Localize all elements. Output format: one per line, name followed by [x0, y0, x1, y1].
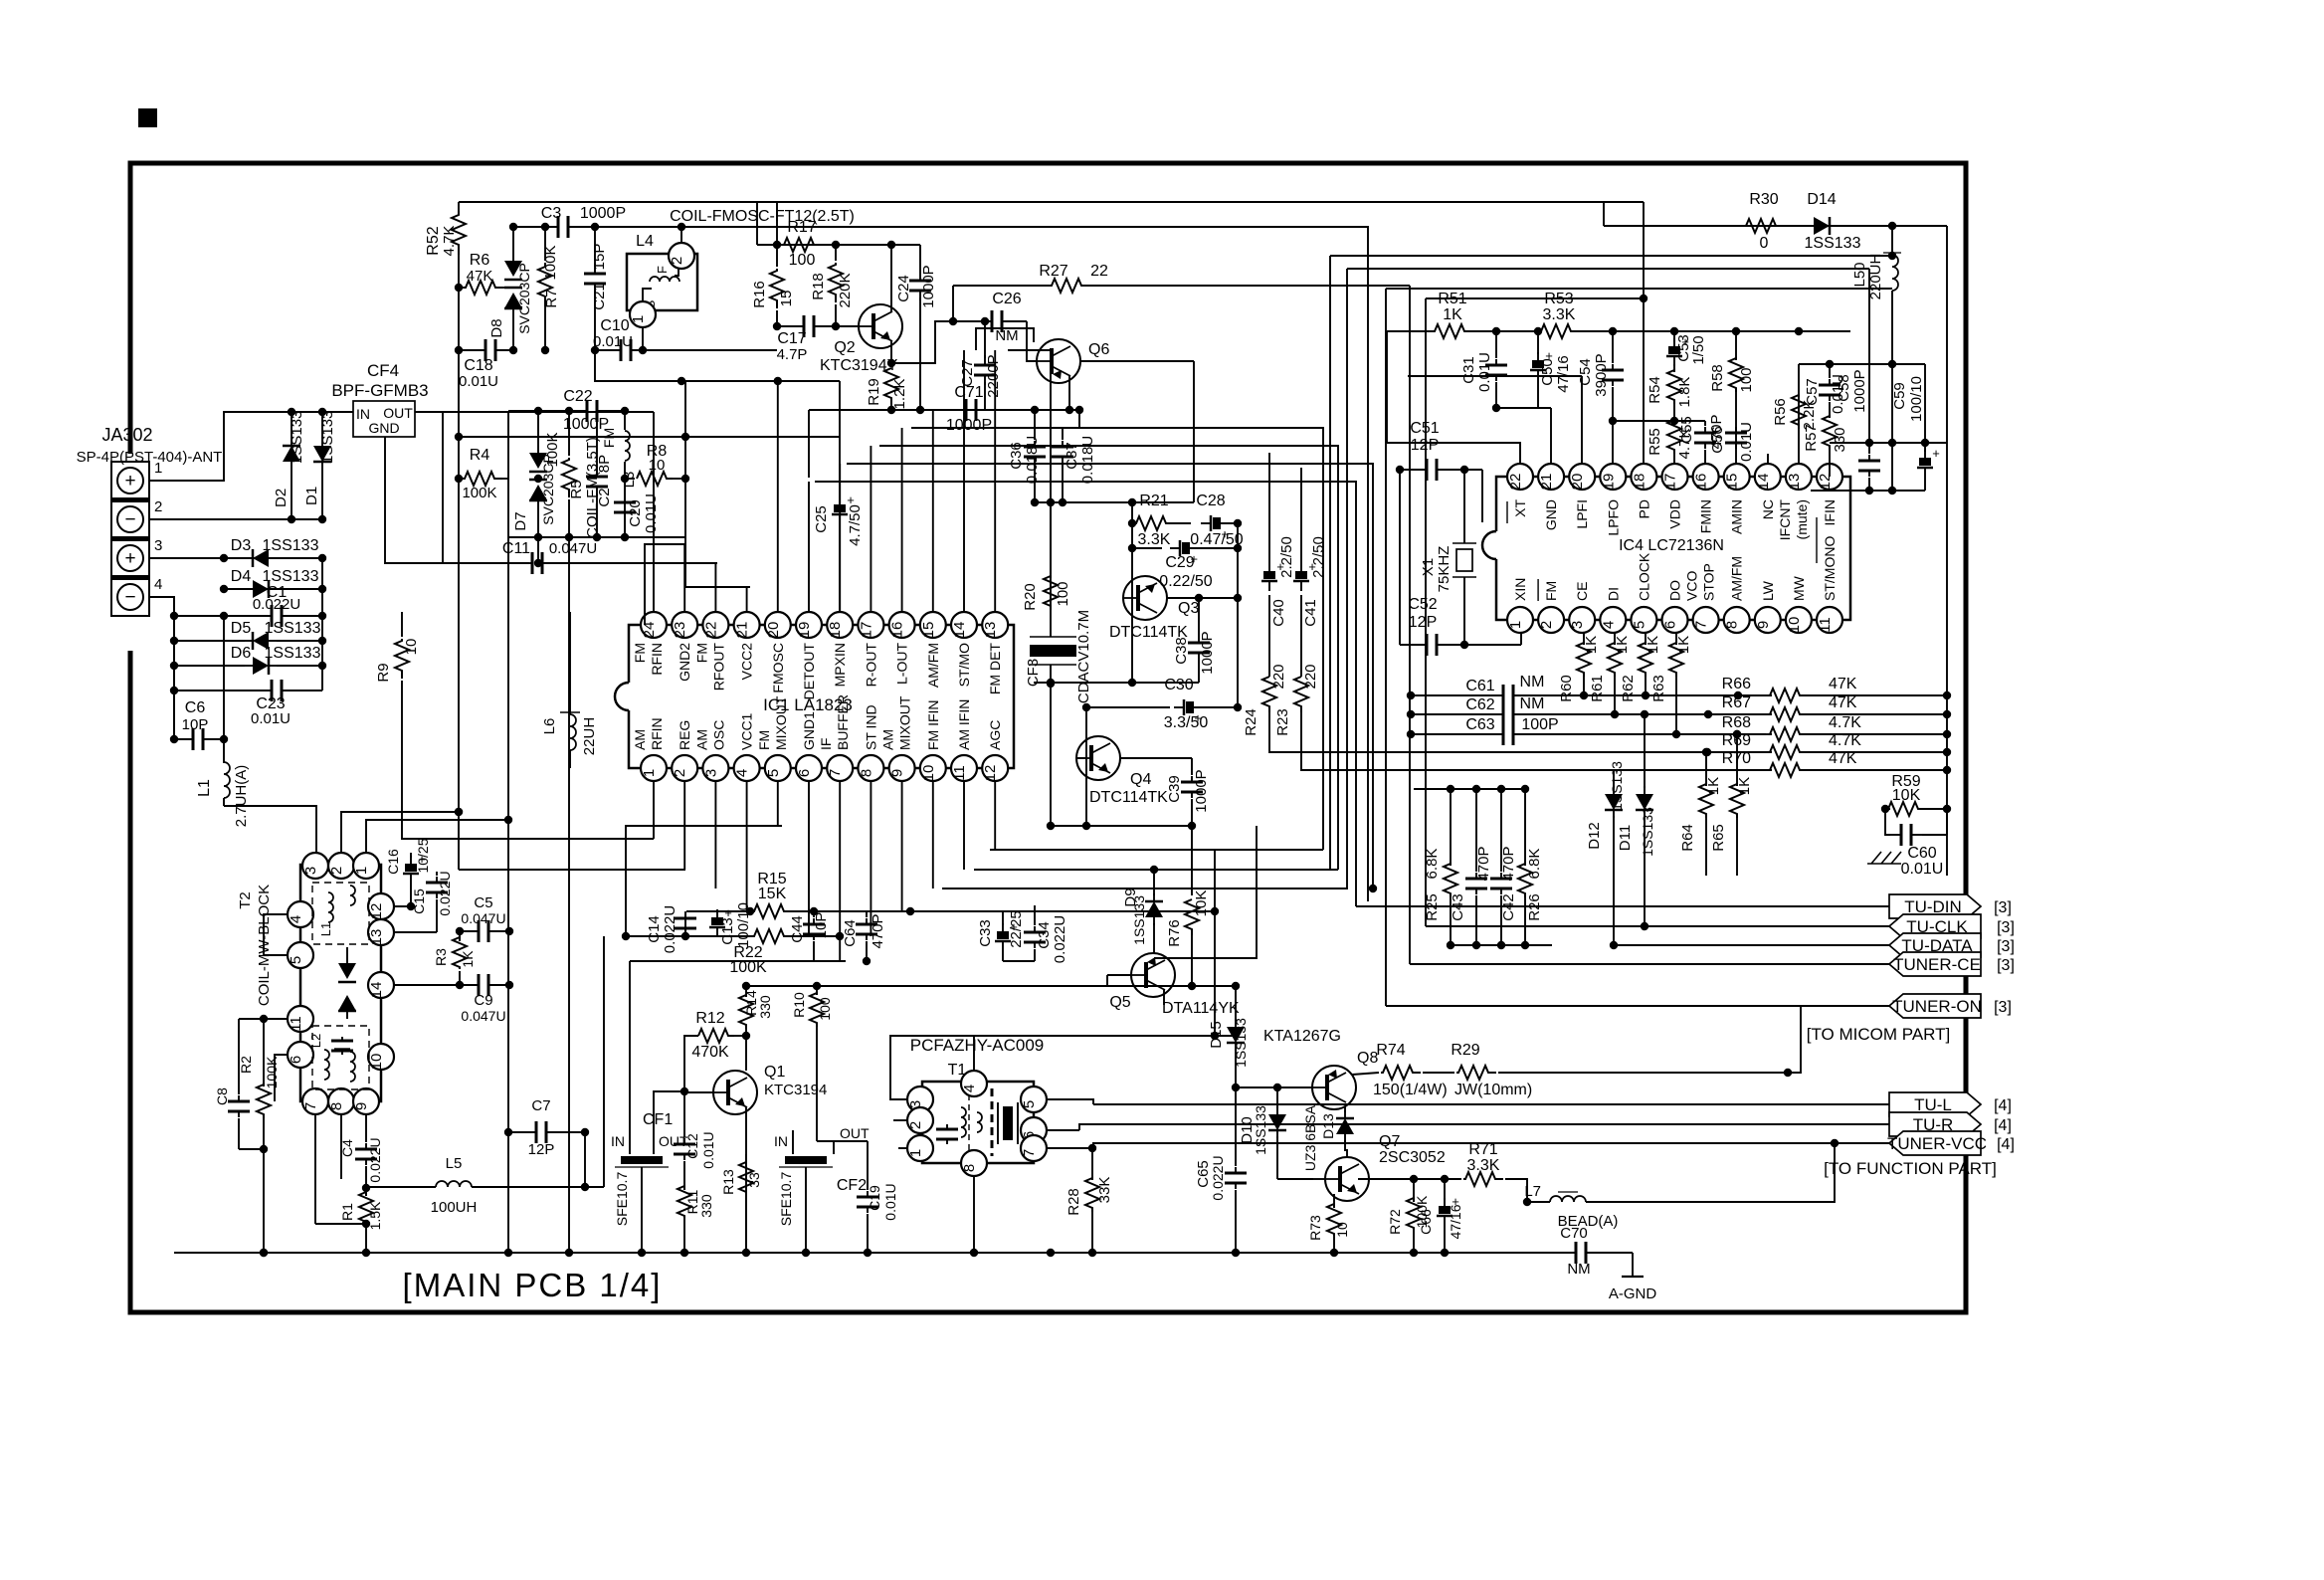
- svg-text:2: 2: [669, 257, 685, 265]
- svg-text:STOP: STOP: [1701, 563, 1717, 601]
- svg-text:330: 330: [1832, 427, 1848, 452]
- svg-text:0.01U: 0.01U: [459, 373, 498, 390]
- junction: [621, 475, 629, 483]
- wire Q2 emitter to C26: [891, 321, 991, 363]
- wire T1 pin6 out: [1047, 1129, 1079, 1131]
- svg-text:1: 1: [641, 769, 658, 777]
- svg-text:L6: L6: [541, 718, 558, 735]
- IC1 pin 16: [889, 612, 915, 638]
- row y=830: [1051, 825, 1192, 827]
- net arrow TU-R [4]: [1889, 1112, 2012, 1136]
- svg-text:R21: R21: [1139, 493, 1168, 509]
- wire pin18 PD long: [1643, 202, 1645, 464]
- svg-text:1: 1: [154, 460, 162, 477]
- junction: [565, 1249, 573, 1257]
- svg-text:C59: C59: [1891, 382, 1908, 410]
- junction: [1943, 748, 1951, 756]
- black index square top-left: [138, 108, 157, 127]
- wire staircase pin17: [879, 446, 1338, 870]
- wire Q2 collector: [890, 245, 892, 311]
- svg-text:0.022U: 0.022U: [367, 1137, 383, 1182]
- svg-text:33K: 33K: [1096, 1177, 1113, 1204]
- svg-text:100: 100: [789, 252, 816, 269]
- svg-text:D4: D4: [231, 568, 252, 585]
- junction: [1865, 487, 1873, 494]
- svg-text:12: 12: [368, 903, 385, 920]
- capacitor C44 10P: [789, 911, 830, 961]
- capacitor C27 2200P: [959, 321, 1002, 410]
- svg-text:2: 2: [1538, 621, 1555, 629]
- svg-text:D3: D3: [231, 537, 252, 554]
- svg-text:VCC1: VCC1: [739, 712, 755, 750]
- transistor Q1 KTC3194: [713, 1064, 827, 1114]
- transistor Q7 2SC3052: [1313, 1133, 1446, 1201]
- wire Q6 collector down: [1068, 376, 1070, 410]
- svg-text:UZ3.6BSA: UZ3.6BSA: [1302, 1104, 1318, 1171]
- wire pin2 route: [455, 808, 685, 870]
- capacitor C59 100/10: [1891, 376, 1940, 491]
- svg-text:R4: R4: [470, 447, 490, 464]
- wire row to TU-R: [1079, 1124, 1889, 1130]
- wire C37 top: [1063, 406, 1083, 428]
- junction: [1188, 982, 1196, 990]
- junction: [1732, 327, 1740, 335]
- svg-text:D12: D12: [1586, 822, 1603, 850]
- IC1 pin 13 lead: [994, 350, 996, 612]
- capacitor C55 470P: [1678, 414, 1725, 464]
- IC4 pin 19: [1600, 464, 1626, 490]
- T2 pin 13: [368, 919, 394, 945]
- junction: [541, 346, 549, 354]
- svg-text:1000P: 1000P: [1193, 769, 1210, 812]
- wire T1 pin3: [890, 1036, 974, 1099]
- svg-text:0.018U: 0.018U: [1024, 436, 1041, 484]
- T1 pin 3: [907, 1086, 933, 1112]
- junction: [541, 223, 549, 231]
- svg-text:R62: R62: [1620, 675, 1637, 702]
- wire pin12 C16: [394, 905, 411, 907]
- junction: [1670, 327, 1678, 335]
- svg-text:D2: D2: [273, 489, 290, 507]
- svg-text:NM: NM: [1520, 695, 1545, 712]
- svg-text:C22: C22: [563, 388, 592, 405]
- svg-text:IN: IN: [774, 1133, 788, 1149]
- wire L1 to T2 pin3: [224, 806, 316, 853]
- svg-text:2.7UH(A): 2.7UH(A): [233, 765, 250, 828]
- wire CF2 out: [817, 1140, 868, 1142]
- svg-text:[3]: [3]: [1997, 957, 2015, 974]
- svg-text:470P: 470P: [1500, 846, 1517, 881]
- svg-text:R52: R52: [425, 226, 442, 255]
- junction: [504, 1249, 512, 1257]
- crystal X1 75KHZ: [1420, 470, 1476, 645]
- svg-text:4.7/50: 4.7/50: [847, 504, 864, 546]
- varicap D8 SVC203CP: [488, 227, 532, 350]
- svg-text:13: 13: [1786, 474, 1803, 491]
- svg-text:D6: D6: [231, 645, 252, 662]
- svg-text:L1: L1: [318, 922, 333, 936]
- svg-text:RFIN: RFIN: [649, 643, 665, 676]
- wire staircase pin16: [911, 428, 1323, 850]
- svg-text:FM: FM: [693, 643, 709, 663]
- wire nest y=228: [681, 227, 1368, 901]
- junction: [455, 433, 463, 441]
- svg-text:17: 17: [1662, 474, 1679, 491]
- capacitor C64 470P: [842, 911, 886, 961]
- T2 pin 6: [288, 1042, 313, 1068]
- wire nest y=270: [942, 269, 1347, 889]
- junction: [1943, 805, 1951, 813]
- svg-text:22: 22: [1507, 474, 1524, 491]
- svg-text:CLOCK: CLOCK: [1636, 552, 1651, 601]
- svg-text:15: 15: [778, 291, 795, 307]
- resistor R28 33K: [1065, 1148, 1113, 1253]
- border frame of schematic sheet: [130, 163, 1966, 1312]
- svg-text:0.01U: 0.01U: [1901, 861, 1944, 878]
- junction: [1410, 1175, 1449, 1183]
- IC1 pin 6: [796, 755, 822, 781]
- wire pin3 row: [149, 557, 322, 559]
- IC1 pin 24: [641, 612, 667, 638]
- junction: [288, 408, 295, 416]
- wire T2 pin2 up: [341, 808, 463, 853]
- wire nest y=270 right: [1347, 269, 1869, 443]
- T1 pin 5: [1021, 1086, 1047, 1112]
- svg-text:4.7K: 4.7K: [1829, 714, 1861, 731]
- wire staircase pin18: [847, 464, 1377, 892]
- resistor R71 3.3K: [1445, 1141, 1527, 1202]
- svg-text:3900P: 3900P: [1593, 353, 1610, 396]
- T2 varicap diodes: [338, 947, 356, 1019]
- diode D10 1SS133: [1239, 1087, 1286, 1179]
- IC1 pin 9: [889, 755, 915, 781]
- capacitor C54 3900P: [1577, 331, 1624, 464]
- svg-text:2: 2: [154, 498, 162, 515]
- svg-text:1SS133: 1SS133: [1131, 895, 1147, 945]
- junction: [170, 735, 178, 743]
- bottom row of FM cluster: [508, 536, 685, 538]
- svg-text:22: 22: [1090, 263, 1108, 280]
- svg-text:ST/MO: ST/MO: [956, 643, 972, 687]
- svg-text:21: 21: [1538, 474, 1555, 491]
- junction: [288, 515, 295, 523]
- svg-text:2: 2: [672, 769, 688, 777]
- svg-text:10P: 10P: [813, 912, 830, 939]
- junction: [1881, 805, 1889, 813]
- svg-text:[3]: [3]: [1994, 999, 2012, 1016]
- svg-text:100/10: 100/10: [735, 902, 752, 948]
- junction: [1082, 703, 1090, 711]
- svg-text:8: 8: [328, 1102, 345, 1110]
- resistor R73 10: [1307, 1204, 1350, 1253]
- svg-text:R55: R55: [1646, 428, 1663, 456]
- svg-text:L7: L7: [1524, 1183, 1541, 1200]
- junction: [318, 662, 326, 670]
- diode D2 1SS133: [273, 411, 305, 519]
- junction: [505, 981, 513, 989]
- svg-text:R-OUT: R-OUT: [863, 643, 878, 688]
- svg-text:470P: 470P: [1475, 846, 1492, 881]
- svg-text:7: 7: [827, 769, 844, 777]
- svg-text:C8: C8: [214, 1087, 230, 1105]
- T2 pin 8: [328, 1088, 354, 1114]
- row R51 R53: [1387, 291, 1850, 338]
- net arrow TUNER-CE [3]: [1889, 952, 2015, 976]
- svg-text:3: 3: [1569, 621, 1586, 629]
- wire row to TU-L: [1093, 1103, 1889, 1105]
- wire pin15 row: [943, 409, 1079, 411]
- resistor R58 100: [1709, 331, 1755, 464]
- junction: [916, 406, 924, 414]
- vertical x=607: [603, 936, 605, 1187]
- junction: [1188, 822, 1196, 830]
- wire Q7 collector row: [1358, 1178, 1445, 1180]
- junction: [565, 407, 573, 415]
- junction: [1943, 730, 1951, 738]
- resistor R30 0: [1744, 191, 1784, 252]
- svg-text:220: 220: [1270, 664, 1287, 689]
- svg-text:15K: 15K: [758, 886, 787, 902]
- svg-text:R60: R60: [1558, 675, 1575, 702]
- junction: [220, 612, 228, 620]
- wire pin21 row: [685, 537, 750, 587]
- capacitors C40 C41 2.2/50: [1261, 453, 1327, 627]
- svg-text:100K: 100K: [462, 485, 496, 501]
- svg-text:[TO MICOM PART]: [TO MICOM PART]: [1807, 1025, 1951, 1044]
- svg-text:0.047U: 0.047U: [549, 540, 597, 557]
- svg-text:D11: D11: [1617, 825, 1634, 851]
- svg-text:8: 8: [1724, 621, 1741, 629]
- row R22 100K: [626, 929, 840, 976]
- junction: [455, 346, 463, 354]
- junction: [1128, 544, 1136, 552]
- svg-text:R29: R29: [1451, 1042, 1479, 1059]
- svg-text:0.047U: 0.047U: [461, 1008, 505, 1024]
- filter CF4 BPF-GFMB3: [331, 361, 428, 437]
- wire D4 row: [224, 588, 322, 590]
- IC1 pin 8: [858, 755, 883, 781]
- wire row to TUNER-VCC: [1092, 1139, 1889, 1147]
- wire pin13 IFCNT: [1798, 364, 1800, 464]
- junction: [678, 377, 685, 385]
- svg-text:47K: 47K: [1829, 694, 1857, 711]
- svg-text:47/16: 47/16: [1448, 1204, 1463, 1239]
- resistor R13 33: [720, 1154, 762, 1253]
- R25 C43 C42 R26 group: [1414, 785, 1552, 949]
- svg-text:C43: C43: [1450, 893, 1466, 921]
- svg-text:8: 8: [858, 769, 874, 777]
- IC1 pin 10: [920, 755, 946, 781]
- svg-text:0.022U: 0.022U: [437, 871, 453, 915]
- T1 pin 8: [961, 1150, 987, 1176]
- svg-text:IFCNT: IFCNT: [1777, 499, 1793, 541]
- wire Q6 output right: [1080, 361, 1194, 502]
- svg-text:7: 7: [1693, 621, 1710, 629]
- IC1 pin 22: [702, 612, 728, 638]
- wire XT pin22: [1387, 443, 1520, 464]
- svg-text:C38: C38: [1173, 637, 1190, 665]
- svg-text:RFOUT: RFOUT: [710, 643, 726, 691]
- svg-text:[4]: [4]: [1997, 1136, 2015, 1153]
- svg-text:SFE10.7: SFE10.7: [778, 1172, 794, 1227]
- svg-text:C31: C31: [1460, 356, 1477, 384]
- svg-text:220K: 220K: [837, 273, 854, 307]
- svg-text:[3]: [3]: [1997, 919, 2015, 936]
- T1 pin 2: [907, 1107, 933, 1133]
- resistor R9 10: [375, 612, 420, 806]
- svg-text:C30: C30: [1164, 677, 1193, 693]
- IC4 pin 13: [1786, 464, 1812, 490]
- svg-text:C60: C60: [1907, 845, 1936, 862]
- svg-text:IC4 LC72136N: IC4 LC72136N: [1619, 537, 1724, 554]
- svg-text:Q5: Q5: [1109, 994, 1130, 1011]
- transistor Q6: [1037, 339, 1109, 383]
- svg-text:BUFFER: BUFFER: [835, 694, 851, 750]
- svg-text:C7: C7: [531, 1097, 550, 1114]
- capacitor C20 0.01U: [614, 479, 660, 537]
- capacitor C60 0.01U: [1885, 809, 1947, 878]
- svg-text:R73: R73: [1307, 1215, 1323, 1241]
- svg-text:14: 14: [951, 622, 968, 639]
- wire L4 pin2 up: [680, 227, 682, 243]
- IC4 pin 7: [1693, 607, 1719, 633]
- svg-text:R1: R1: [339, 1203, 355, 1221]
- junction: [1088, 1249, 1096, 1257]
- svg-text:TUNER-ON: TUNER-ON: [1892, 997, 1982, 1016]
- svg-text:10: 10: [368, 1054, 385, 1071]
- svg-text:1K: 1K: [1705, 777, 1722, 795]
- wire C33 C34 rows: [1003, 905, 1035, 961]
- net arrow TU-DIN [3]: [1889, 894, 2012, 918]
- svg-text:MIXOUT: MIXOUT: [773, 695, 789, 750]
- capacitor C15 0.022U: [411, 871, 453, 932]
- junction: [1232, 1249, 1240, 1257]
- transformer T2 COIL-MW-BLOCK: [237, 865, 381, 1101]
- capacitor C53 1/50: [1666, 331, 1707, 366]
- junction: [455, 284, 463, 292]
- capacitor C28 0.47/50: [1190, 493, 1243, 548]
- junction: [832, 322, 840, 330]
- svg-text:COIL-FM(3.5T): COIL-FM(3.5T): [584, 437, 601, 538]
- vertical x=511 long: [507, 537, 509, 1253]
- junction: [1704, 691, 1742, 738]
- T2 pin 3: [302, 853, 328, 879]
- svg-text:GND2: GND2: [677, 643, 692, 682]
- transistor Q8 KTA1267G: [1263, 1028, 1378, 1109]
- junction: [1943, 766, 1951, 774]
- wire pin7 row: [315, 1223, 366, 1225]
- svg-text:10: 10: [1786, 617, 1803, 634]
- svg-text:R65: R65: [1710, 824, 1727, 852]
- wire nest y=285: [1385, 289, 1387, 1006]
- svg-text:19: 19: [796, 622, 813, 639]
- svg-text:5: 5: [1631, 621, 1647, 629]
- right bus x=1957: [1946, 226, 1948, 876]
- svg-text:1000P: 1000P: [946, 417, 992, 434]
- junction: [746, 907, 754, 915]
- vertical bus x=461: [458, 288, 460, 870]
- junction: [1523, 1198, 1531, 1206]
- svg-text:10K: 10K: [1892, 787, 1921, 804]
- svg-text:C70: C70: [1560, 1225, 1588, 1242]
- svg-text:14: 14: [368, 982, 385, 999]
- junction: [318, 637, 326, 645]
- resistor R18 220K: [810, 245, 854, 326]
- resistor R64 1K: [1679, 752, 1722, 876]
- svg-text:Q1: Q1: [764, 1064, 785, 1081]
- svg-text:3: 3: [154, 537, 162, 554]
- wire nest y=290 right: [1386, 289, 1929, 447]
- resistor R56 2.2K: [1772, 395, 1818, 430]
- diode D4 1SS133: [231, 568, 319, 598]
- svg-text:3: 3: [302, 867, 319, 875]
- svg-text:10: 10: [403, 639, 420, 656]
- resistor R10 100: [791, 986, 833, 1141]
- IC4 pin 22: [1507, 464, 1533, 490]
- svg-text:Q2: Q2: [834, 339, 855, 356]
- junction: [680, 1087, 688, 1095]
- wire T1 pin5 out: [1047, 1099, 1093, 1104]
- diode D14 1SS133: [1805, 191, 1861, 252]
- svg-text:0.022U: 0.022U: [662, 905, 678, 953]
- svg-text:C63: C63: [1465, 716, 1494, 733]
- junction: [1088, 1144, 1096, 1152]
- junction: [1888, 439, 1896, 447]
- junction: [170, 637, 178, 645]
- svg-text:C64: C64: [842, 919, 859, 947]
- wire T2 pin7: [314, 1114, 316, 1224]
- wire D14 row: [1604, 225, 1892, 227]
- junction: [455, 475, 463, 483]
- svg-text:R6: R6: [470, 252, 490, 269]
- svg-text:11: 11: [1817, 617, 1834, 633]
- inductor L6 22UH: [541, 612, 598, 768]
- wire pin20 LPFI: [1581, 376, 1583, 464]
- IC1 pin 9 lead bottom: [901, 781, 903, 911]
- svg-text:AM: AM: [880, 729, 896, 750]
- wire row to TU-DIN: [1356, 905, 1889, 907]
- connector JA302 labels: [77, 425, 223, 466]
- svg-text:1K: 1K: [460, 950, 476, 968]
- svg-text:−: −: [124, 509, 135, 530]
- wire Q7 base: [1277, 1178, 1313, 1180]
- IC1 pin 23 lead: [683, 544, 685, 612]
- svg-text:ST IND: ST IND: [863, 704, 878, 750]
- svg-text:IF: IF: [818, 738, 834, 750]
- svg-text:NC: NC: [1760, 499, 1776, 519]
- svg-text:R19: R19: [866, 378, 882, 406]
- capacitor C37 0.018U: [1052, 428, 1096, 502]
- junction: [1826, 360, 1834, 368]
- resistor R66 47K: [1722, 676, 1947, 702]
- svg-text:D8: D8: [488, 318, 505, 337]
- svg-text:L-OUT: L-OUT: [894, 643, 910, 685]
- svg-text:2: 2: [907, 1121, 924, 1129]
- svg-text:9: 9: [353, 1102, 370, 1110]
- svg-text:22/25: 22/25: [1008, 910, 1025, 948]
- svg-text:24: 24: [641, 622, 658, 639]
- wire pin24 left: [443, 411, 654, 413]
- junction: [318, 408, 326, 416]
- svg-text:1000P: 1000P: [920, 265, 937, 307]
- capacitor C66 47/16: [1418, 1179, 1463, 1253]
- capacitor C19 0.01U: [857, 1141, 898, 1253]
- resistor R67 47K: [1708, 694, 1947, 721]
- svg-text:100/10: 100/10: [1908, 376, 1925, 422]
- svg-text:19: 19: [1600, 474, 1617, 491]
- svg-text:C25: C25: [813, 505, 830, 533]
- svg-text:1SS133: 1SS133: [1233, 1018, 1249, 1068]
